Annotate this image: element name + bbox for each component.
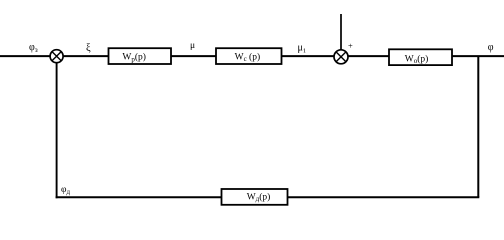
wire: disturbance input from top into junction 2 xyxy=(340,14,342,50)
wire: feedback tap down on right side xyxy=(477,56,479,197)
block W_o(p) plant xyxy=(389,49,452,65)
svg-text:Wо(p): Wо(p) xyxy=(405,53,429,65)
wire: bottom feedback line right segment xyxy=(288,196,480,198)
summing junction U1 (comparator circle with X) xyxy=(50,50,63,63)
svg-text:φд: φд xyxy=(61,185,70,196)
svg-text:μ1: μ1 xyxy=(298,43,307,55)
wire: junction 2 to block Wo xyxy=(348,55,389,57)
svg-text:Wд(p): Wд(p) xyxy=(247,191,271,203)
svg-text:+: + xyxy=(348,40,353,50)
svg-text:ξ: ξ xyxy=(86,43,91,54)
wire: block Wp to block Wc xyxy=(171,55,216,57)
wire: junction 1 to block Wp xyxy=(63,55,108,57)
block W_d(p) feedback sensor xyxy=(222,189,288,205)
wire: bottom feedback line left segment xyxy=(56,196,222,198)
summing junction U2 (circle with X) xyxy=(334,50,348,64)
svg-text:Wр(p): Wр(p) xyxy=(122,52,146,64)
wire: output line from block Wo to right edge xyxy=(452,55,504,57)
wire: input line into summing junction 1 xyxy=(0,55,51,57)
wire: feedback up to summing junction 1 xyxy=(56,62,58,198)
svg-text:Wс (p): Wс (p) xyxy=(235,51,261,63)
svg-text:μ: μ xyxy=(190,41,195,51)
block W_p(p) regulator xyxy=(109,48,172,64)
wire: block Wc to summing junction 2 xyxy=(282,55,335,57)
block W_c(p) xyxy=(216,48,282,64)
svg-text:φ: φ xyxy=(488,42,494,53)
svg-text:φз: φз xyxy=(29,42,38,54)
